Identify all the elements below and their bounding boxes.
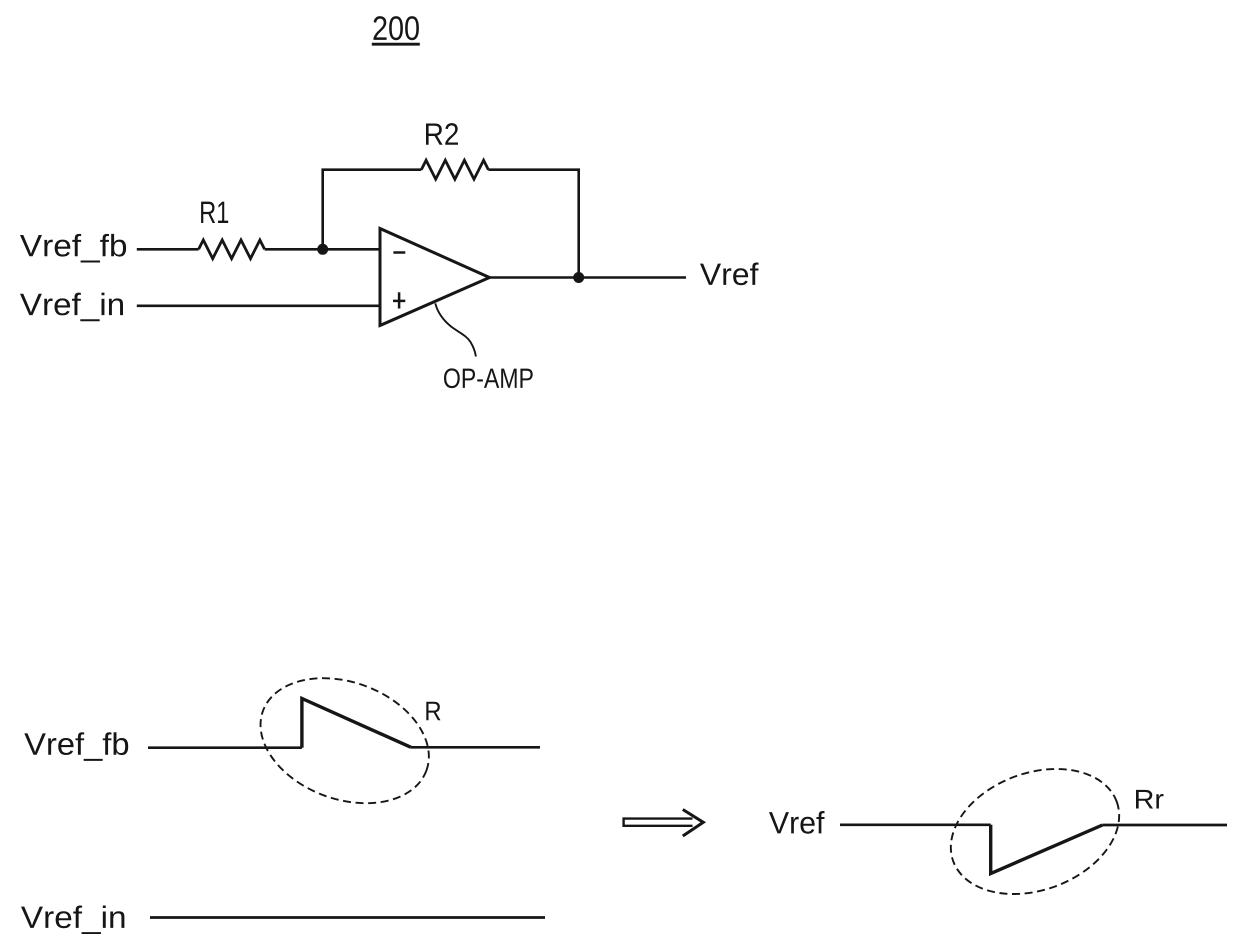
- net label Vref_in: [20, 293, 123, 322]
- op-amp plus pin symbol: [393, 292, 405, 308]
- op-amp minus pin symbol: [393, 251, 405, 254]
- op-amp leader squiggle: [435, 303, 476, 356]
- waveform Vref_fb baseline right segment: [411, 746, 540, 749]
- resistor R1: [199, 240, 265, 259]
- label Rr: [1136, 790, 1164, 809]
- op-amp OP-AMP label: [444, 368, 533, 388]
- figure number 200 underline: [372, 43, 420, 46]
- implication arrow head: [683, 810, 704, 837]
- waveform Vref baseline left segment: [840, 823, 991, 826]
- op-amp U1 triangle: [380, 229, 490, 326]
- net label Vref output: [700, 262, 759, 285]
- wire Vref_fb input: [137, 248, 199, 251]
- wire feedback loop left vertical: [323, 170, 422, 250]
- waveform label Vref bottom right: [769, 811, 825, 834]
- waveform Vref_in flat line: [150, 916, 545, 919]
- waveform Vref baseline right segment: [1103, 824, 1228, 827]
- waveform Vref_fb baseline left segment: [148, 746, 302, 749]
- resistor R1 value label: [201, 202, 228, 223]
- waveform Vref dip and ramp: [991, 825, 1103, 874]
- wire Vref_in to op-amp non-inverting input: [137, 304, 380, 307]
- resistor R2 value label: [426, 123, 458, 145]
- output junction node dot: [573, 272, 584, 283]
- waveform label Vref_fb bottom left: [24, 732, 128, 761]
- wire feedback loop right vertical: [488, 170, 578, 278]
- wire op-amp output: [490, 276, 687, 279]
- label R: [426, 702, 440, 721]
- dashed ellipse highlight R: [243, 656, 447, 825]
- implication arrow shaft: [624, 817, 693, 827]
- resistor R2: [421, 160, 488, 179]
- wire R1 to op-amp inverting input: [265, 248, 380, 251]
- junction node A dot: [317, 244, 328, 255]
- net label Vref_fb: [20, 234, 126, 263]
- waveform label Vref_in bottom left: [21, 905, 124, 934]
- waveform Vref_fb sawtooth step and ramp: [302, 699, 411, 748]
- dashed ellipse highlight Rr: [933, 747, 1137, 916]
- figure number 200 label: [374, 16, 419, 40]
